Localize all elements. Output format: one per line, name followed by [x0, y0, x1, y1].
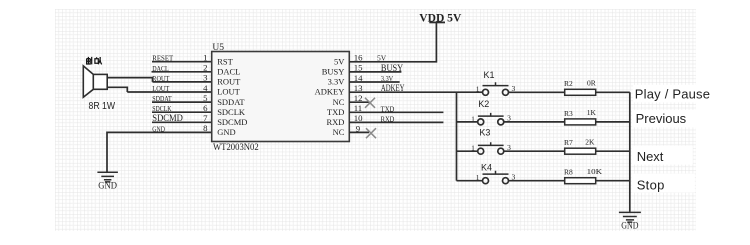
svg-text:1K: 1K: [587, 108, 597, 117]
wire net BUSY: [349, 71, 401, 73]
svg-text:TXD: TXD: [381, 104, 395, 113]
svg-text:GND: GND: [217, 127, 235, 137]
pin numbers left 1-8: [203, 53, 208, 134]
svg-text:R7: R7: [564, 138, 573, 147]
wire net LOUT: [127, 91, 211, 93]
ground symbol left: [97, 172, 118, 182]
svg-text:RST: RST: [217, 56, 233, 66]
svg-text:NC: NC: [333, 97, 345, 107]
svg-text:SDCLK: SDCLK: [217, 107, 246, 117]
svg-text:TXD: TXD: [327, 107, 344, 117]
wire K3 to R7: [504, 150, 565, 152]
svg-text:LOUT: LOUT: [217, 87, 240, 97]
no-connect X pin12: [365, 98, 375, 108]
resistor R2: [564, 78, 596, 95]
svg-text:K2: K2: [478, 99, 489, 109]
wire GND pin8 to ground: [107, 132, 212, 171]
svg-text:LOUT: LOUT: [152, 84, 169, 93]
svg-text:R8: R8: [564, 168, 573, 177]
svg-text:K3: K3: [479, 127, 490, 137]
svg-text:5V: 5V: [334, 56, 345, 66]
svg-text:RXD: RXD: [326, 117, 344, 127]
svg-text:Next: Next: [637, 149, 664, 164]
speaker LS1 label 喇叭: [87, 57, 102, 65]
svg-text:Previous: Previous: [636, 111, 687, 126]
resistor R3: [564, 108, 596, 125]
svg-text:DACL: DACL: [152, 64, 169, 73]
svg-text:U5: U5: [212, 43, 224, 53]
svg-text:GND: GND: [152, 124, 165, 133]
label Play / Pause: [633, 85, 711, 103]
svg-text:K4: K4: [481, 163, 492, 173]
button K4: [476, 163, 516, 184]
wire net SDDAT: [152, 101, 212, 103]
wire bus to K4: [457, 180, 483, 182]
svg-text:8R 1W: 8R 1W: [89, 101, 116, 112]
wire R7 to right bus: [596, 150, 630, 152]
svg-text:5V: 5V: [377, 54, 387, 63]
label Stop: [632, 174, 695, 193]
svg-text:SDCMD: SDCMD: [152, 114, 183, 124]
button K1: [476, 70, 516, 95]
svg-text:SDCMD: SDCMD: [217, 117, 247, 127]
label Next: [632, 146, 693, 165]
right bus vertical to ground: [629, 92, 631, 211]
pin numbers right 16-9: [354, 53, 363, 134]
svg-text:5: 5: [203, 93, 208, 103]
wire K1 to R2: [508, 91, 564, 93]
chip pin names right: [315, 56, 346, 137]
svg-text:R2: R2: [564, 79, 573, 88]
button K3: [471, 127, 511, 154]
svg-text:GND: GND: [98, 182, 117, 192]
svg-text:DACL: DACL: [217, 67, 240, 77]
svg-text:BUSY: BUSY: [322, 67, 345, 77]
wire speaker to LOUT: [107, 87, 127, 92]
svg-text:R3: R3: [564, 109, 573, 118]
wire bus to K3: [457, 150, 478, 152]
svg-text:2: 2: [203, 63, 207, 73]
svg-text:RXD: RXD: [381, 114, 395, 123]
svg-text:RESET: RESET: [152, 54, 173, 63]
wire net ROUT: [153, 81, 212, 83]
svg-text:K1: K1: [484, 70, 495, 80]
wire 5V pin16 to VDD: [349, 23, 436, 62]
resistor R8: [564, 167, 603, 184]
wire net SDCMD: [152, 121, 212, 123]
chip pin names left: [217, 56, 247, 137]
svg-text:3.3V: 3.3V: [328, 77, 346, 87]
wire R8 to right bus: [596, 180, 630, 182]
svg-text:ROUT: ROUT: [152, 74, 169, 83]
wire R2 to right bus: [596, 91, 630, 93]
button K2: [471, 99, 511, 125]
svg-text:3: 3: [203, 73, 208, 83]
svg-text:4: 4: [203, 83, 208, 93]
speaker LS1 symbol: [83, 66, 107, 97]
no-connect X pin9: [366, 128, 376, 138]
svg-text:0R: 0R: [587, 78, 596, 87]
svg-text:7: 7: [203, 113, 208, 123]
svg-text:GND: GND: [621, 221, 638, 231]
wire speaker to ROUT: [107, 78, 152, 82]
wire net ADKEY: [349, 91, 482, 93]
ground symbol right: [619, 212, 641, 222]
svg-text:ADKEY: ADKEY: [381, 84, 405, 94]
chip U5 body: [212, 52, 350, 142]
pin12 NC stub: [349, 101, 369, 103]
wire bus to K2: [457, 121, 478, 123]
wire net TXD: [349, 111, 443, 113]
svg-text:ROUT: ROUT: [217, 77, 241, 87]
svg-text:3.3V: 3.3V: [381, 74, 394, 83]
label Previous: [632, 110, 700, 128]
key bus vertical: [456, 92, 458, 181]
wire net 3.3V: [349, 81, 399, 83]
svg-text:BUSY: BUSY: [381, 64, 403, 74]
svg-text:6: 6: [203, 103, 208, 113]
resistor R7: [564, 137, 596, 154]
svg-text:WT2003N02: WT2003N02: [213, 143, 259, 153]
svg-text:1: 1: [203, 53, 207, 63]
svg-text:NC: NC: [333, 127, 345, 137]
svg-text:Play / Pause: Play / Pause: [635, 86, 710, 101]
svg-text:8: 8: [203, 123, 208, 133]
power VDD 5V: [429, 21, 445, 23]
svg-text:SDDAT: SDDAT: [152, 94, 172, 103]
svg-text:2K: 2K: [585, 137, 595, 146]
wire net RXD: [349, 121, 443, 123]
svg-text:VDD 5V: VDD 5V: [419, 10, 461, 24]
pin9 NC stub: [349, 131, 369, 133]
wire net SDCLK: [152, 111, 212, 113]
svg-text:10K: 10K: [587, 167, 603, 176]
wire net RESET: [152, 61, 212, 63]
wire K2 to R3: [504, 121, 565, 123]
svg-text:Stop: Stop: [637, 177, 665, 192]
wire K4 to R8: [508, 180, 564, 182]
wire net DACL: [152, 71, 212, 73]
wire R3 to right bus: [596, 121, 630, 123]
svg-text:SDCLK: SDCLK: [152, 104, 172, 113]
svg-text:ADKEY: ADKEY: [315, 87, 345, 97]
svg-text:SDDAT: SDDAT: [217, 97, 245, 107]
svg-text:1: 1: [476, 84, 480, 93]
